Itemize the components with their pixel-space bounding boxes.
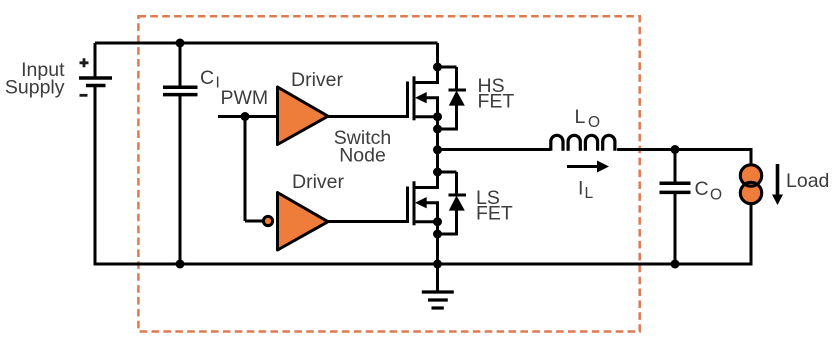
label IL current arrow: [567, 165, 600, 168]
svg-text:Driver: Driver: [291, 69, 344, 91]
node PWM junction: [241, 112, 250, 121]
node inverter bubble: [263, 216, 272, 225]
load current source: [740, 165, 761, 186]
node CI bottom junction: [176, 260, 185, 269]
svg-text:Load: Load: [786, 170, 829, 192]
svg-text:O: O: [710, 187, 722, 204]
battery V_IN minus plate: [86, 84, 106, 88]
wire driver U1 output to HS gate: [328, 115, 407, 118]
node switch node: [433, 145, 442, 154]
op-amp driver U1 (high side): [278, 87, 329, 145]
node LS diode top: [433, 168, 442, 177]
diode LS body diode: [438, 172, 467, 236]
svg-text:PWM: PWM: [221, 87, 269, 109]
capacitor CI: [179, 43, 182, 87]
inductor LO: [551, 135, 615, 151]
wire switch node to inductor: [438, 148, 551, 151]
load arrow: [776, 164, 780, 195]
diode HS body diode: [438, 67, 467, 131]
wire LS drain to switch node: [436, 150, 439, 190]
IC boundary dashed box: [138, 16, 639, 331]
wire inductor to output: [617, 148, 752, 151]
capacitor CO: [674, 150, 677, 182]
svg-text:Driver: Driver: [292, 171, 345, 193]
wire left vertical to battery: [94, 43, 97, 77]
node HS diode bottom: [433, 125, 442, 134]
wire PWM input: [218, 115, 277, 118]
svg-text:L: L: [585, 185, 594, 202]
wire battery to bottom rail: [94, 87, 97, 266]
wire output to load: [750, 148, 753, 166]
svg-text:C: C: [200, 67, 214, 89]
label plus sign: [80, 58, 89, 67]
svg-text:Node: Node: [339, 145, 386, 167]
wire bottom rail: [94, 263, 751, 266]
wire load to bottom rail: [750, 204, 753, 266]
svg-text:FET: FET: [476, 203, 513, 225]
node ground junction: [433, 260, 442, 269]
node HS diode top: [433, 63, 442, 72]
transistor HS FET: [406, 82, 409, 119]
svg-text:I: I: [578, 178, 583, 200]
node CI top junction: [176, 39, 185, 48]
node LS diode bottom: [433, 230, 442, 239]
wire HS drain to top rail: [436, 43, 439, 84]
node HS source: [433, 112, 442, 121]
svg-text:Supply: Supply: [5, 77, 65, 99]
svg-text:FET: FET: [478, 91, 515, 113]
ground: [436, 264, 439, 292]
node CO bottom: [671, 260, 680, 269]
transistor LS FET: [406, 187, 409, 224]
svg-text:I: I: [216, 75, 220, 92]
op-amp driver U2 (low side): [278, 193, 329, 251]
battery V_IN plus plate: [79, 76, 112, 80]
node LS source: [433, 217, 442, 226]
node CO top: [671, 145, 680, 154]
svg-text:O: O: [588, 114, 600, 131]
wire PWM junction down to lower driver: [245, 117, 263, 222]
wire top rail: [95, 42, 438, 45]
label minus sign: [80, 94, 88, 97]
svg-text:L: L: [575, 106, 586, 128]
wire driver U2 output to LS gate: [328, 220, 407, 223]
svg-text:C: C: [695, 178, 709, 200]
